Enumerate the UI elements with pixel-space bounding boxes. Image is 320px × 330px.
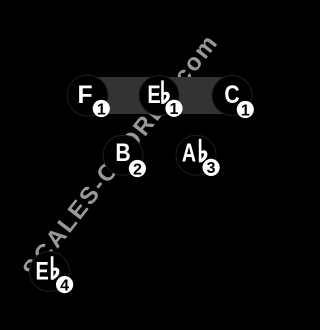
svg-text:4: 4 — [60, 277, 69, 294]
svg-text:E: E — [147, 82, 160, 109]
svg-text:1: 1 — [170, 101, 179, 118]
svg-text:C: C — [224, 82, 239, 109]
svg-text:A: A — [182, 138, 196, 168]
svg-text:B: B — [115, 140, 130, 167]
svg-text:3: 3 — [207, 160, 216, 177]
svg-text:E: E — [36, 258, 49, 285]
svg-text:2: 2 — [133, 161, 142, 178]
svg-text:F: F — [78, 82, 93, 109]
svg-text:1: 1 — [241, 102, 250, 119]
svg-text:1: 1 — [97, 101, 106, 118]
